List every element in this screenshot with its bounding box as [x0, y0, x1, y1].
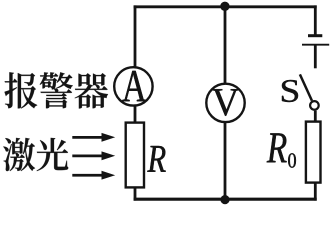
switch S pivot contact	[310, 101, 319, 110]
switch label S	[282, 80, 298, 102]
label 激光 (laser)	[3, 138, 68, 171]
label 报警器 (alarm)	[5, 72, 109, 108]
node junction top (dot)	[220, 2, 229, 11]
laser arrow 2	[72, 151, 115, 160]
wire top junction to voltmeter	[224, 7, 227, 84]
wire voltmeter to bottom junction	[224, 122, 227, 199]
voltmeter V1 circle	[206, 84, 244, 122]
wire switch to R0	[314, 111, 317, 122]
wire battery to switch	[314, 45, 317, 68]
ammeter A1 circle	[114, 67, 152, 105]
resistor R0 body	[306, 122, 321, 183]
wire top bus	[134, 5, 317, 8]
wire ammeter to R	[134, 106, 137, 123]
ammeter label A	[122, 71, 146, 101]
resistor label R	[147, 146, 165, 172]
resistor label R0 (R)	[267, 133, 287, 162]
voltmeter label V	[212, 89, 239, 116]
node junction bottom (dot)	[220, 195, 229, 204]
laser arrow 3	[72, 171, 115, 180]
wire bottom bus	[134, 198, 317, 201]
wire left branch (top wire to ammeter)	[134, 5, 137, 66]
wire right branch (top wire to battery)	[314, 5, 317, 34]
wire R to bottom bus	[134, 188, 137, 201]
switch S blade	[300, 74, 312, 100]
battery B1 short plate	[308, 34, 322, 37]
laser arrow 1	[72, 133, 115, 142]
resistor label R0 (subscript 0)	[288, 153, 296, 167]
wire R0 to bottom bus	[314, 183, 317, 201]
resistor R body	[126, 123, 144, 188]
battery B1 long plate	[302, 44, 329, 46]
